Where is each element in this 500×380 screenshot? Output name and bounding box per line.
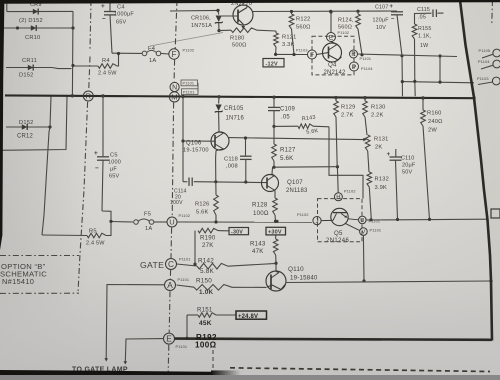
svg-text:Q107: Q107 xyxy=(287,179,303,186)
svg-text:P1101: P1101 xyxy=(360,57,372,61)
dashed boundary line (left, dash-dot) xyxy=(78,0,91,293)
connector pin J (P1102) xyxy=(297,213,321,225)
wire - F4 feed xyxy=(112,52,142,54)
svg-text:M: M xyxy=(171,93,177,102)
svg-text:C109: C109 xyxy=(280,107,295,113)
svg-text:10V: 10V xyxy=(376,25,386,31)
wire - Q106 emitter down xyxy=(215,151,217,182)
wire - vertical x74 diode bus xyxy=(71,11,74,96)
wire - Q4 base rail xyxy=(276,53,308,55)
transistor Q106 19-15700 xyxy=(183,132,229,154)
svg-text:45K: 45K xyxy=(199,320,212,327)
connector pin H (P1102) xyxy=(334,190,355,201)
resistor R150 1.0K xyxy=(177,278,267,296)
resistor R151 45K xyxy=(187,307,236,339)
svg-text:19-15840: 19-15840 xyxy=(290,274,318,281)
svg-text:2.4 5W: 2.4 5W xyxy=(98,71,117,77)
connector plug C (P1101) xyxy=(166,258,191,270)
svg-text:N: N xyxy=(172,84,177,91)
svg-text:R122: R122 xyxy=(296,17,310,23)
svg-text:65V: 65V xyxy=(116,20,127,26)
svg-text:P1103: P1103 xyxy=(477,77,489,81)
svg-text:C5: C5 xyxy=(110,153,118,159)
svg-text:3.3K: 3.3K xyxy=(282,42,295,48)
svg-text:P1101: P1101 xyxy=(179,258,191,262)
wire - plug E to gate lamp xyxy=(125,339,163,362)
wire - branch from R143 to Q5 socket corner xyxy=(329,127,363,199)
resistor R142 5.8K xyxy=(177,258,277,276)
connector plug A (P1101) xyxy=(165,278,190,291)
connector pin P (P1104) xyxy=(350,62,374,71)
svg-text:R155: R155 xyxy=(418,26,431,32)
connector box right edge xyxy=(491,209,500,218)
svg-text:P1102: P1102 xyxy=(183,49,195,53)
connector pin F2 (P1103) xyxy=(296,48,317,59)
wire - CR9 top stub xyxy=(6,0,8,12)
svg-text:,008: ,008 xyxy=(226,164,238,170)
svg-text:CR11: CR11 xyxy=(22,58,37,64)
svg-text:.05: .05 xyxy=(281,115,290,121)
wire - gate lamp rail (heavy) xyxy=(175,339,493,340)
svg-text:Q4: Q4 xyxy=(328,62,337,69)
resistor R5 2.4 5W xyxy=(42,221,111,246)
svg-text:5.6K: 5.6K xyxy=(196,210,209,216)
transistor Q110 19-15840 xyxy=(266,263,318,291)
svg-text:+: + xyxy=(390,4,394,10)
connector P1104 xyxy=(478,60,500,69)
wire - plug row to border (y220) xyxy=(366,218,488,221)
svg-text:−: − xyxy=(95,165,99,172)
diode CR11 (D152) xyxy=(19,58,37,79)
svg-text:100Ω: 100Ω xyxy=(253,210,269,217)
svg-text:560Ω: 560Ω xyxy=(338,25,352,31)
zener diode CR105 1N716 xyxy=(215,97,245,132)
svg-text:65V: 65V xyxy=(109,174,120,180)
svg-text:R127: R127 xyxy=(280,147,296,154)
svg-text:R142: R142 xyxy=(198,258,214,265)
svg-text:R143: R143 xyxy=(250,241,266,248)
capacitor C118 .008 xyxy=(224,138,252,182)
dashed stub top right xyxy=(491,0,494,23)
wire - plug U to plug J xyxy=(177,221,312,223)
wire - pin H to R127/R129 node xyxy=(336,167,339,193)
svg-text:2W: 2W xyxy=(428,127,437,133)
potentiometer R131 2K xyxy=(365,135,388,151)
wire - CR9 row xyxy=(7,10,73,12)
svg-text:C107: C107 xyxy=(375,5,388,11)
svg-text:F: F xyxy=(310,52,314,59)
svg-text:R160: R160 xyxy=(427,111,441,117)
transistor Q4 2N2142 xyxy=(317,42,346,77)
svg-text:CR12: CR12 xyxy=(17,134,33,140)
resistor R122 560 ohm xyxy=(289,12,311,55)
svg-text:2.2K: 2.2K xyxy=(371,113,384,119)
dash-dot box OPTION B SCHEMATIC N#15410 xyxy=(0,256,79,294)
svg-text:2.7K: 2.7K xyxy=(341,113,354,119)
svg-text:P1101: P1101 xyxy=(176,345,188,349)
svg-text:P1104: P1104 xyxy=(361,67,373,71)
svg-text:C4: C4 xyxy=(117,5,125,11)
svg-text:P1102: P1102 xyxy=(297,213,309,217)
svg-text:−: − xyxy=(102,16,106,23)
svg-text:+: + xyxy=(101,3,105,10)
zener diode CR106 1N751A xyxy=(191,10,223,30)
svg-text:.05: .05 xyxy=(418,15,426,21)
transistor Q107 2N1183 xyxy=(262,167,309,198)
wire - top rail y11 xyxy=(170,9,218,12)
connector plug F (P1102) xyxy=(169,49,194,60)
resistor R127 5.6K xyxy=(272,126,296,167)
svg-text:P1102: P1102 xyxy=(179,214,191,218)
svg-text:560Ω: 560Ω xyxy=(296,25,311,31)
wire - vertical from bus to CR12 and down to R5 xyxy=(42,96,51,235)
dashed outline Q5 socket xyxy=(318,199,363,242)
svg-text:+: + xyxy=(387,151,391,158)
svg-text:500Ω: 500Ω xyxy=(232,43,247,49)
svg-text:C110: C110 xyxy=(401,156,415,162)
connector P1103 xyxy=(477,77,500,85)
svg-text:−: − xyxy=(391,17,395,23)
connector plug U (P1102) xyxy=(167,214,190,227)
svg-text:100Ω: 100Ω xyxy=(195,341,217,350)
svg-text:R151: R151 xyxy=(197,307,213,314)
connector plug M (P1101) xyxy=(169,83,198,102)
svg-text:2.4 5W: 2.4 5W xyxy=(86,241,105,247)
dashed outline Q4 socket xyxy=(312,36,354,75)
svg-text:E: E xyxy=(166,335,172,344)
svg-text:P: P xyxy=(352,64,357,71)
svg-text:-30V: -30V xyxy=(231,229,243,235)
resistor R126 5.6K xyxy=(195,182,218,222)
svg-text:P1101: P1101 xyxy=(369,220,381,224)
svg-text:R5: R5 xyxy=(89,229,97,235)
svg-text:P1101: P1101 xyxy=(183,82,195,86)
svg-text:F: F xyxy=(172,50,177,59)
resistor R121 3.3K xyxy=(274,31,297,54)
capacitor C115 .05 xyxy=(415,7,444,24)
svg-text:(2) D152: (2) D152 xyxy=(19,18,43,24)
wire - vertical x183 from bus xyxy=(182,97,184,182)
wire - fuse F5 to plug U xyxy=(154,221,167,223)
svg-text:C: C xyxy=(168,260,174,269)
boxed label -30V xyxy=(225,228,249,236)
wire - V pin down to emitter rail xyxy=(362,235,365,281)
svg-text:+: + xyxy=(94,150,98,157)
boxed label +24.8V xyxy=(236,311,267,320)
svg-text:1N751A: 1N751A xyxy=(191,23,212,29)
svg-text:120μF: 120μF xyxy=(373,18,390,24)
svg-text:C118: C118 xyxy=(224,157,238,163)
svg-text:Q106: Q106 xyxy=(186,141,202,147)
svg-text:2K: 2K xyxy=(375,145,382,151)
boxed label +30V xyxy=(266,227,286,235)
svg-text:F4: F4 xyxy=(148,46,156,52)
svg-text:P1103: P1103 xyxy=(296,48,308,52)
dashed boundary line (center, dash-dot) xyxy=(168,0,177,372)
transistor Q5 2N1246 xyxy=(321,208,359,244)
svg-text:R121: R121 xyxy=(282,35,296,41)
wire - R127 bottom to R129 bottom xyxy=(274,166,337,169)
wire - CR11 row xyxy=(6,68,72,69)
capacitor C4 xyxy=(101,2,134,53)
svg-text:5.6K: 5.6K xyxy=(280,155,294,162)
svg-text:Q5: Q5 xyxy=(334,230,343,237)
connector pin R (P1101) xyxy=(350,50,372,61)
svg-text:R180: R180 xyxy=(230,36,244,42)
svg-text:U: U xyxy=(360,218,364,224)
wire - main horizontal bus xyxy=(5,95,474,98)
connector plug E (P1101) xyxy=(164,333,188,349)
svg-text:H: H xyxy=(336,195,340,201)
svg-text:Q110: Q110 xyxy=(288,266,304,273)
svg-text:CR105: CR105 xyxy=(224,106,244,112)
svg-text:V: V xyxy=(362,230,366,236)
svg-text:5.8K: 5.8K xyxy=(200,268,214,275)
resistor R155 1.1K 1W xyxy=(412,24,431,49)
svg-text:P1104: P1104 xyxy=(478,60,490,64)
svg-text:μF: μF xyxy=(110,167,117,173)
resistor R132 3.9K xyxy=(367,151,389,220)
svg-text:1W: 1W xyxy=(420,43,428,49)
resistor R143 5.6K horizontal xyxy=(274,115,329,136)
svg-text:2N1246: 2N1246 xyxy=(326,238,349,244)
svg-text:R4: R4 xyxy=(102,58,110,64)
svg-text:27K: 27K xyxy=(202,242,214,249)
diode CR10 xyxy=(25,25,40,41)
resistor R143 47K vertical xyxy=(250,235,278,263)
svg-text:N#15410: N#15410 xyxy=(2,277,34,286)
wire - Q106 collector line to R131 wiper xyxy=(229,138,364,140)
connector pin V (P1101) xyxy=(360,220,382,236)
svg-text:R131: R131 xyxy=(374,137,388,143)
svg-text:1.0K: 1.0K xyxy=(199,289,213,296)
fuse F4 1A xyxy=(142,46,161,64)
svg-text:R124,: R124, xyxy=(338,18,354,24)
svg-text:R126: R126 xyxy=(195,202,209,208)
svg-text:2N1183: 2N1183 xyxy=(286,188,308,194)
bottom dashed line xyxy=(230,368,490,372)
wire - plug A to gate lamp xyxy=(106,285,164,360)
wire - short dash at x213 xyxy=(212,350,214,369)
svg-text:19-15700: 19-15700 xyxy=(183,148,209,154)
svg-text:-12V: -12V xyxy=(266,61,279,67)
connector P1105 xyxy=(479,49,500,58)
resistor R190 27K xyxy=(195,228,225,264)
label R192 100 ohm (inked correction) xyxy=(195,333,217,350)
svg-text:1N716: 1N716 xyxy=(226,116,245,122)
svg-text:P1102: P1102 xyxy=(344,190,356,194)
connector circle R on bus xyxy=(83,91,93,101)
capacitor C107 120uF 10V xyxy=(373,4,404,96)
svg-text:R190: R190 xyxy=(200,235,216,242)
svg-text:D152: D152 xyxy=(19,73,33,79)
resistor R124 560 ohm xyxy=(338,11,362,55)
svg-text:1.1K,: 1.1K, xyxy=(418,34,431,40)
svg-text:P1101: P1101 xyxy=(178,278,190,282)
svg-text:J: J xyxy=(315,218,318,225)
wire - CR10 row xyxy=(3,27,73,29)
potentiometer R180 500Ω xyxy=(219,28,276,49)
connector pin U2 (P1101) xyxy=(359,216,367,224)
svg-text:R128: R128 xyxy=(252,202,268,209)
svg-text:240Ω: 240Ω xyxy=(428,119,443,125)
capacitor C5 1000uF 65V xyxy=(94,96,121,221)
svg-text:47K: 47K xyxy=(252,248,264,255)
wire - CR12 row xyxy=(6,126,50,128)
resistor R128 100 ohm xyxy=(252,191,277,222)
svg-text:R: R xyxy=(351,52,356,58)
wire - Q3 emitter to R180 wiper xyxy=(242,24,244,27)
svg-text:P1101: P1101 xyxy=(370,229,382,233)
svg-text:CR10: CR10 xyxy=(25,35,40,41)
svg-text:U: U xyxy=(169,218,174,227)
svg-text:C115: C115 xyxy=(417,7,430,13)
svg-text:P1105: P1105 xyxy=(479,49,491,53)
svg-text:1A: 1A xyxy=(149,58,156,64)
svg-text:3.9K: 3.9K xyxy=(375,185,388,191)
wire - top rail to C107 xyxy=(253,10,397,13)
capacitor C109 .05 xyxy=(268,97,295,126)
svg-text:R: R xyxy=(86,92,92,101)
wire - faint crease line xyxy=(150,33,223,47)
capacitor C110 20uF 50V xyxy=(387,149,416,219)
resistor R160 240 ohm 2W xyxy=(421,98,443,219)
svg-text:R130: R130 xyxy=(371,105,385,111)
svg-text:1000μF: 1000μF xyxy=(114,12,134,18)
svg-text:GATE: GATE xyxy=(140,260,164,270)
wire - Q110 emitter rail to border xyxy=(286,281,491,283)
svg-text:+24.8V: +24.8V xyxy=(238,314,258,320)
svg-text:D152: D152 xyxy=(19,120,33,126)
svg-text:R129: R129 xyxy=(341,105,355,111)
wire - F5 feed xyxy=(111,221,133,224)
boxed label -12V xyxy=(263,59,284,68)
svg-text:50V: 50V xyxy=(402,170,413,176)
svg-text:E: E xyxy=(329,34,334,41)
connector plug N (P1101) xyxy=(170,80,198,92)
wire - Q4 collector rail to border xyxy=(358,54,458,57)
svg-text:CR106,: CR106, xyxy=(191,16,211,22)
resistor R129 2.7K xyxy=(334,98,356,167)
schematic border line (right) xyxy=(460,0,492,341)
resistor R4 xyxy=(73,54,119,77)
svg-text:A: A xyxy=(167,281,173,290)
wire - R155 lower branch xyxy=(402,39,474,96)
capacitor C114 on lower wire xyxy=(183,178,267,186)
svg-text:+30V: +30V xyxy=(268,230,282,236)
svg-text:P1102: P1102 xyxy=(338,31,350,35)
wire - fuse to plug F xyxy=(161,52,169,55)
diode CR12 (D152) xyxy=(17,120,33,140)
resistor R130 2.2K xyxy=(363,98,386,135)
svg-text:R150: R150 xyxy=(196,278,212,285)
fuse F5 1A xyxy=(134,212,154,232)
capacitor C119 20 100V xyxy=(170,189,187,207)
svg-text:P1101: P1101 xyxy=(183,90,195,94)
diode CR9 xyxy=(30,2,42,15)
svg-text:20μF: 20μF xyxy=(402,163,416,169)
svg-text:F5: F5 xyxy=(144,212,151,218)
svg-text:1000: 1000 xyxy=(108,160,121,166)
svg-text:100V: 100V xyxy=(170,200,183,206)
svg-text:2N2142: 2N2142 xyxy=(324,70,346,76)
transistor Q3 2N2270 xyxy=(219,0,253,25)
connector pin E (P1102) xyxy=(327,10,350,41)
wire - vertical x66 with left stub xyxy=(0,96,67,150)
svg-text:R132: R132 xyxy=(375,177,389,183)
svg-text:1A: 1A xyxy=(145,226,152,232)
